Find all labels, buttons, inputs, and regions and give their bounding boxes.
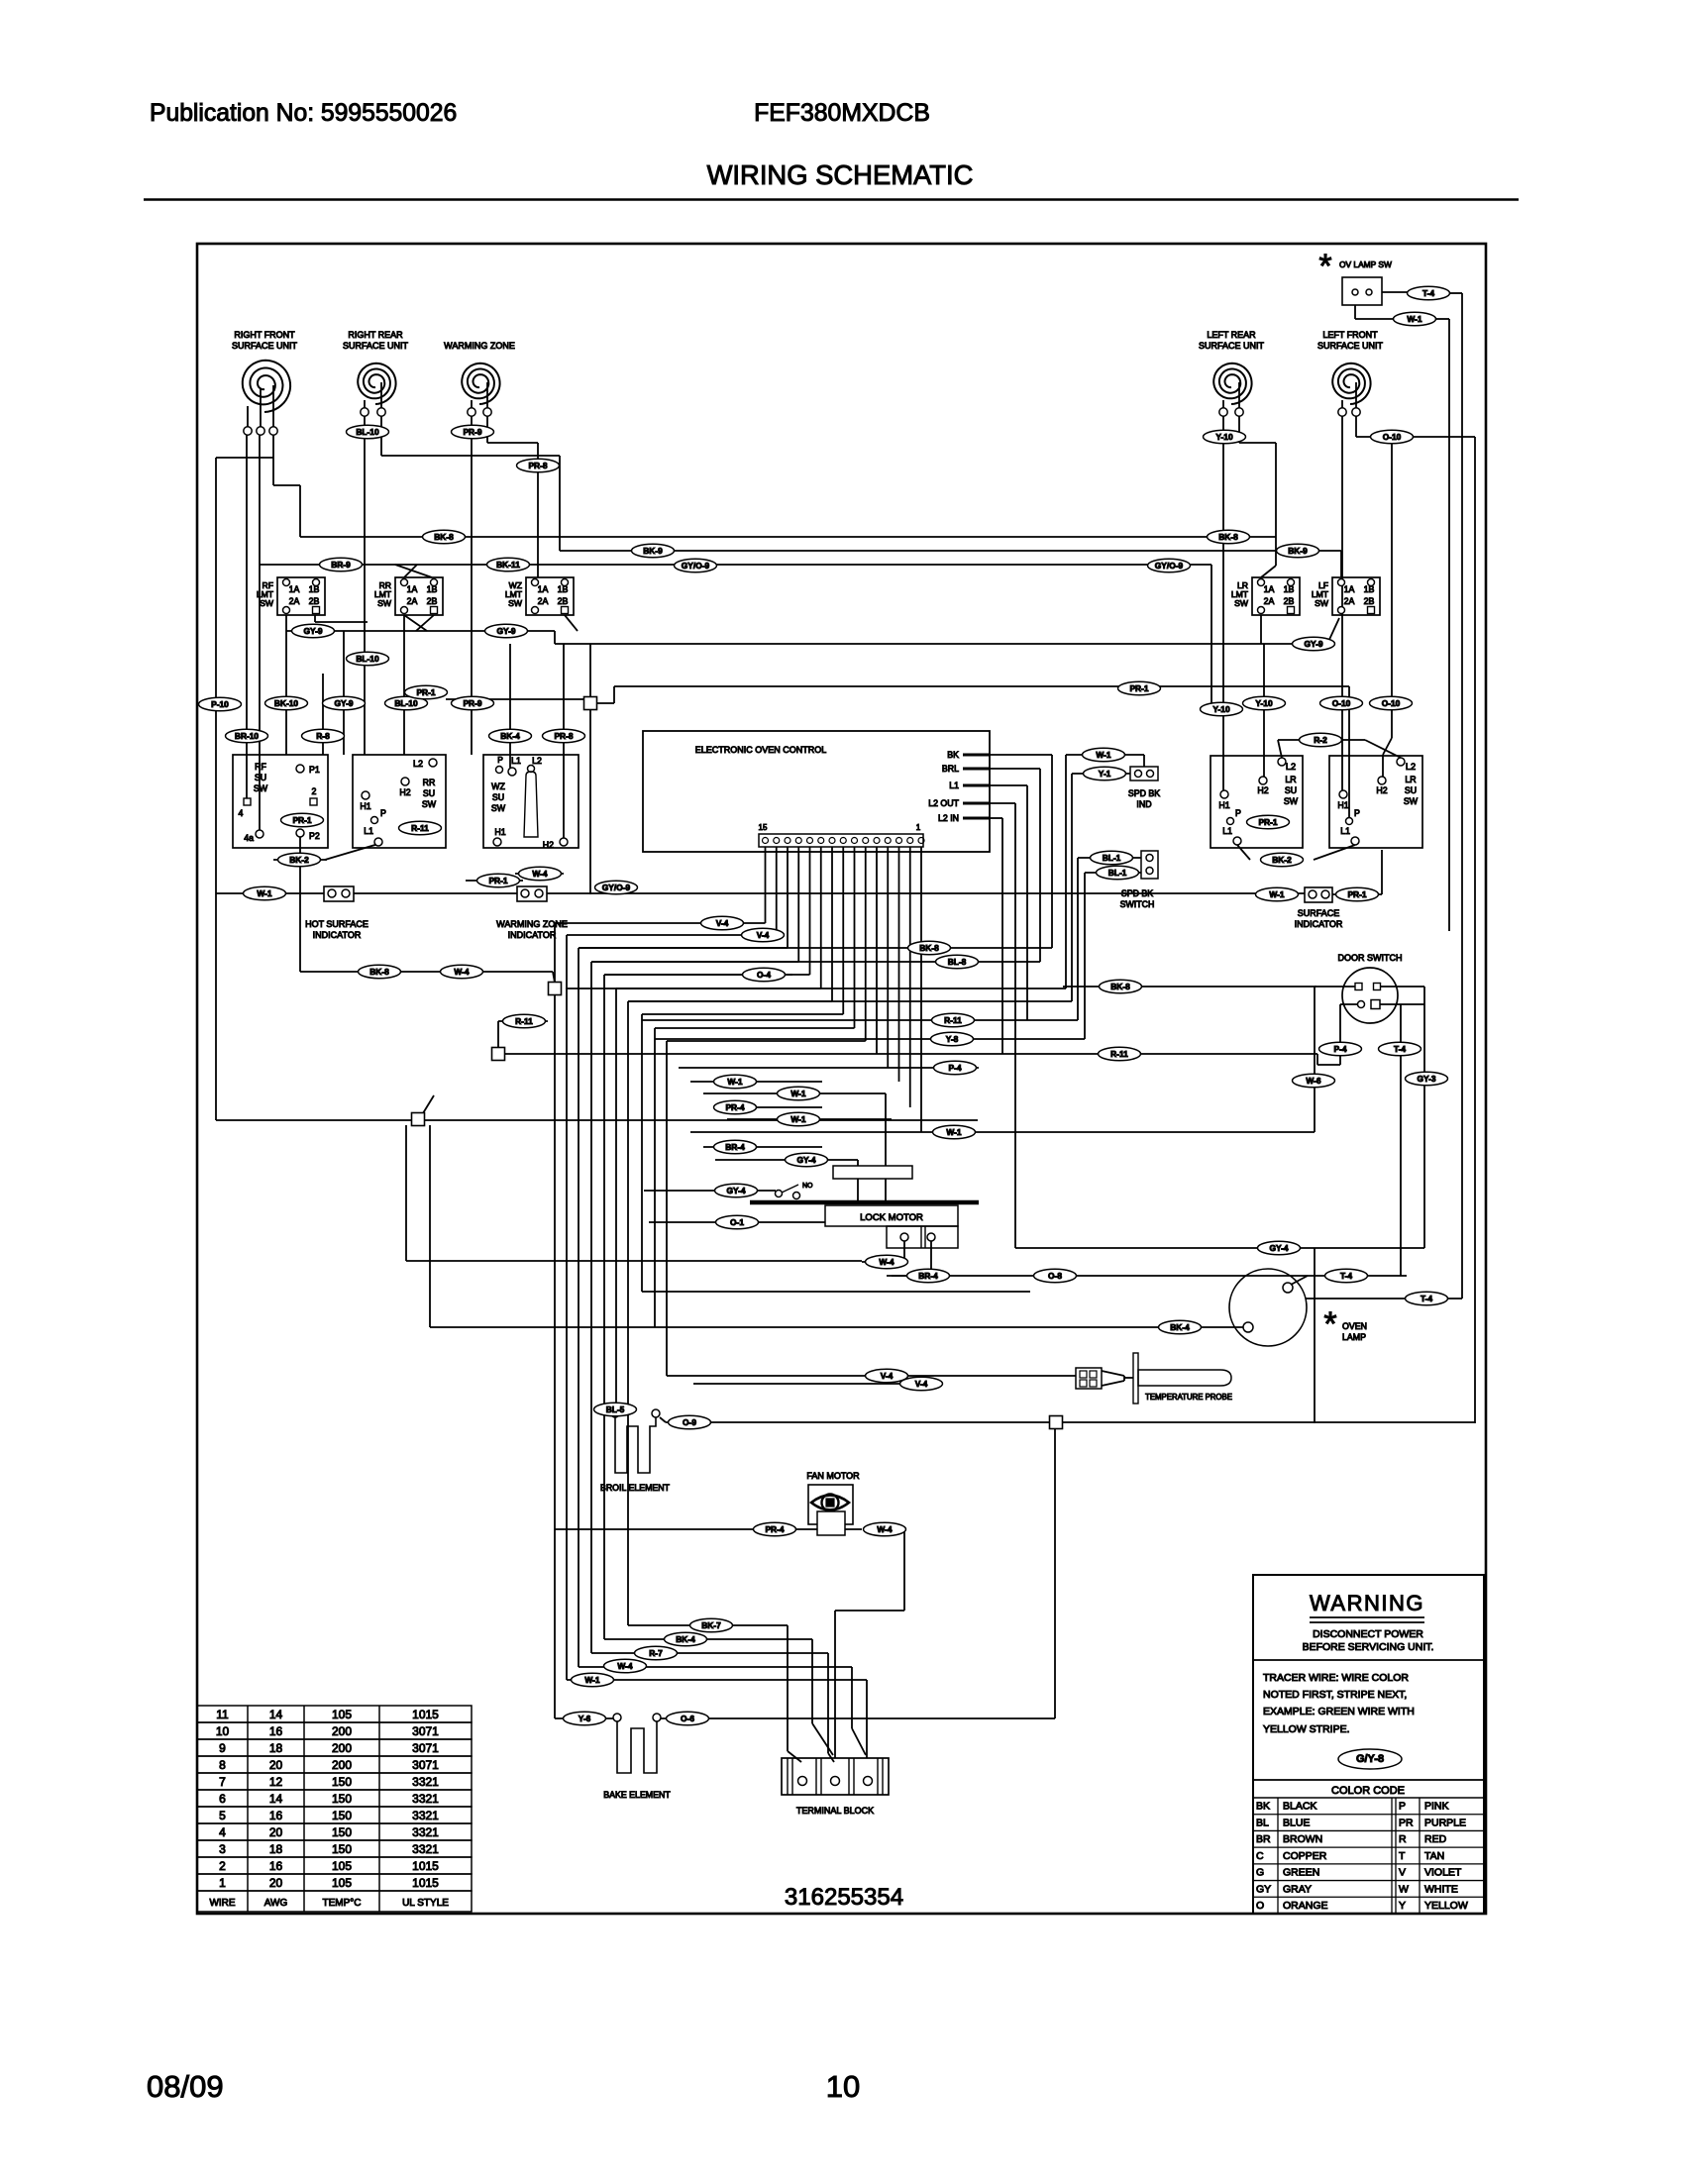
svg-text:SURFACE UNIT: SURFACE UNIT [232,341,298,351]
svg-text:WARMING ZONE: WARMING ZONE [496,919,568,929]
svg-text:BK: BK [947,750,959,760]
svg-text:T-4: T-4 [1340,1271,1352,1281]
svg-text:1015: 1015 [412,1708,439,1721]
svg-text:2A: 2A [1264,596,1275,606]
svg-text:200: 200 [332,1724,352,1738]
svg-text:BK-8: BK-8 [434,532,454,542]
svg-text:OV LAMP SW: OV LAMP SW [1339,260,1392,269]
svg-text:2B: 2B [309,596,320,606]
svg-text:SPD BK: SPD BK [1121,888,1153,898]
svg-text:GY/O-9: GY/O-9 [682,561,710,571]
svg-text:O-10: O-10 [1332,698,1351,708]
svg-text:PINK: PINK [1424,1801,1449,1813]
svg-text:08/09: 08/09 [147,2069,224,2104]
svg-text:GY-9: GY-9 [496,626,515,636]
svg-text:C: C [1256,1850,1264,1862]
svg-text:TEMPERATURE PROBE: TEMPERATURE PROBE [1145,1393,1232,1402]
svg-text:V-4: V-4 [915,1379,928,1389]
svg-text:LAMP: LAMP [1342,1332,1366,1342]
svg-text:16: 16 [269,1859,283,1873]
svg-text:L1: L1 [1222,826,1232,836]
svg-text:W-1: W-1 [1096,750,1111,760]
svg-text:R-11: R-11 [515,1016,533,1026]
svg-text:PR-8: PR-8 [554,731,573,741]
svg-text:O-8: O-8 [1048,1271,1062,1281]
svg-text:SURFACE UNIT: SURFACE UNIT [343,341,409,351]
svg-text:BK-8: BK-8 [1218,532,1238,542]
svg-text:BK-8: BK-8 [369,967,389,977]
svg-text:PR-1: PR-1 [416,687,435,697]
svg-text:R-11: R-11 [944,1015,962,1025]
svg-text:PR-1: PR-1 [1258,817,1277,827]
svg-text:Y: Y [1399,1900,1406,1912]
svg-text:O-10: O-10 [1383,432,1402,442]
svg-text:IND: IND [1136,799,1151,809]
svg-text:SW: SW [422,799,437,809]
svg-text:W-1: W-1 [257,888,272,898]
svg-text:W-1: W-1 [790,1114,806,1124]
svg-text:20: 20 [269,1825,283,1839]
svg-text:BROIL ELEMENT: BROIL ELEMENT [600,1483,671,1493]
svg-text:1015: 1015 [412,1859,439,1873]
svg-text:2: 2 [312,786,317,796]
svg-text:BK-10: BK-10 [274,698,299,708]
svg-text:BK-9: BK-9 [1288,546,1308,556]
svg-text:SU: SU [492,792,504,802]
svg-text:PR-1: PR-1 [292,815,311,825]
svg-text:SURFACE UNIT: SURFACE UNIT [1317,341,1384,351]
svg-text:R-7: R-7 [649,1648,663,1658]
svg-text:VIOLET: VIOLET [1424,1867,1462,1879]
svg-text:4: 4 [219,1825,226,1839]
svg-text:RIGHT REAR: RIGHT REAR [348,330,403,340]
svg-text:BK: BK [1256,1801,1270,1813]
svg-text:18: 18 [269,1741,283,1755]
svg-text:W-4: W-4 [454,967,470,977]
svg-text:3: 3 [219,1842,226,1856]
svg-text:20: 20 [269,1876,283,1890]
svg-text:BL-10: BL-10 [356,654,379,664]
svg-text:Y-10: Y-10 [1212,704,1230,714]
svg-text:6: 6 [219,1792,226,1806]
svg-text:PR-4: PR-4 [765,1524,784,1534]
svg-text:3321: 3321 [412,1809,439,1822]
svg-text:SW: SW [1284,796,1299,806]
svg-text:NO: NO [802,1183,813,1190]
svg-text:V-4: V-4 [716,918,729,928]
svg-text:L2: L2 [1286,762,1296,772]
svg-text:TERMINAL BLOCK: TERMINAL BLOCK [796,1806,874,1816]
svg-text:LR: LR [1285,775,1296,784]
svg-text:GY-4: GY-4 [1269,1243,1288,1253]
svg-text:R-11: R-11 [411,823,429,833]
svg-text:WARMING ZONE: WARMING ZONE [444,341,515,351]
svg-text:BK-2: BK-2 [1272,855,1292,865]
svg-text:P: P [497,755,503,765]
svg-text:H2: H2 [399,787,410,797]
svg-text:GY-3: GY-3 [1417,1074,1435,1084]
svg-text:BR-10: BR-10 [235,731,260,741]
svg-text:Publication No: 5995550026: Publication No: 5995550026 [150,100,457,127]
svg-text:BROWN: BROWN [1283,1833,1322,1845]
svg-text:R-11: R-11 [1110,1049,1128,1059]
svg-text:TRACER WIRE: WIRE COLOR: TRACER WIRE: WIRE COLOR [1263,1672,1409,1684]
svg-text:P2: P2 [309,831,320,841]
svg-text:2B: 2B [1284,596,1295,606]
svg-text:WHITE: WHITE [1424,1883,1458,1895]
svg-text:150: 150 [332,1792,352,1806]
svg-text:2B: 2B [558,596,569,606]
svg-text:R-2: R-2 [1314,735,1327,745]
svg-text:H1: H1 [1218,800,1229,810]
svg-text:H2: H2 [1257,785,1268,795]
svg-text:TEMP°C: TEMP°C [323,1898,362,1909]
svg-text:316255354: 316255354 [785,1884,903,1911]
svg-text:LEFT FRONT: LEFT FRONT [1322,330,1378,340]
svg-text:NOTED FIRST, STRIPE NEXT,: NOTED FIRST, STRIPE NEXT, [1263,1689,1407,1701]
svg-text:RIGHT FRONT: RIGHT FRONT [234,330,295,340]
svg-text:BK-11: BK-11 [496,560,520,570]
svg-text:T-4: T-4 [1394,1044,1406,1054]
svg-text:1A: 1A [1344,584,1355,594]
svg-text:BK-8: BK-8 [1110,982,1130,991]
svg-text:20: 20 [269,1758,283,1772]
svg-text:BLUE: BLUE [1283,1817,1310,1828]
svg-text:PR-8: PR-8 [528,461,547,470]
svg-text:L2: L2 [413,759,423,769]
svg-text:8: 8 [219,1758,226,1772]
svg-text:1A: 1A [289,584,300,594]
svg-text:P-4: P-4 [948,1063,961,1073]
svg-text:H2: H2 [1376,785,1387,795]
svg-text:O-4: O-4 [757,970,771,980]
svg-text:R: R [1399,1833,1407,1845]
svg-text:2A: 2A [538,596,549,606]
svg-text:2A: 2A [289,596,300,606]
svg-text:RED: RED [1424,1833,1447,1845]
svg-text:T: T [1399,1850,1406,1862]
svg-text:BL-1: BL-1 [1103,853,1121,863]
svg-text:WIRE: WIRE [209,1898,235,1909]
svg-text:SU: SU [1405,785,1417,795]
svg-text:BK-9: BK-9 [643,546,663,556]
svg-text:BL-10: BL-10 [356,427,379,437]
svg-text:18: 18 [269,1842,283,1856]
svg-text:Y-10: Y-10 [1215,432,1233,442]
svg-text:BL-5: BL-5 [606,1404,625,1414]
svg-text:9: 9 [219,1741,226,1755]
svg-text:L1: L1 [364,826,373,836]
svg-text:LEFT REAR: LEFT REAR [1207,330,1256,340]
svg-text:V: V [1399,1867,1406,1879]
svg-text:105: 105 [332,1859,352,1873]
svg-text:WIRING SCHEMATIC: WIRING SCHEMATIC [707,159,974,190]
svg-text:SU: SU [255,773,266,782]
svg-text:GY/O-9: GY/O-9 [1155,561,1184,571]
svg-text:2A: 2A [407,596,418,606]
svg-text:SW: SW [508,598,523,608]
svg-text:14: 14 [269,1708,283,1721]
svg-text:PURPLE: PURPLE [1424,1817,1466,1828]
svg-text:150: 150 [332,1825,352,1839]
svg-text:BK-8: BK-8 [919,943,939,953]
svg-text:ELECTRONIC OVEN CONTROL: ELECTRONIC OVEN CONTROL [695,745,827,755]
svg-text:Y-8: Y-8 [946,1034,959,1044]
svg-text:Y-6: Y-6 [579,1714,591,1723]
svg-text:10: 10 [216,1724,230,1738]
svg-text:EXAMPLE: GREEN WIRE WITH: EXAMPLE: GREEN WIRE WITH [1263,1706,1415,1717]
svg-text:OVEN: OVEN [1342,1321,1367,1331]
svg-text:INDICATOR: INDICATOR [508,930,557,940]
svg-text:P: P [380,808,386,818]
svg-text:BR-9: BR-9 [331,560,351,570]
svg-text:7: 7 [219,1775,226,1789]
svg-text:Y-1: Y-1 [1099,769,1111,779]
svg-text:T-4: T-4 [1421,1294,1432,1303]
svg-text:3321: 3321 [412,1842,439,1856]
svg-text:W-6: W-6 [1306,1076,1321,1086]
svg-text:3321: 3321 [412,1825,439,1839]
svg-text:YELLOW: YELLOW [1424,1900,1468,1912]
svg-text:1A: 1A [407,584,418,594]
svg-text:DISCONNECT POWER: DISCONNECT POWER [1313,1628,1423,1640]
svg-text:1015: 1015 [412,1876,439,1890]
svg-text:W: W [1399,1883,1409,1895]
svg-text:W-4: W-4 [617,1661,633,1671]
svg-text:16: 16 [269,1724,283,1738]
svg-text:105: 105 [332,1876,352,1890]
svg-text:SW: SW [1404,796,1419,806]
svg-text:GRAY: GRAY [1283,1883,1312,1895]
svg-text:BK-2: BK-2 [289,855,309,865]
svg-text:BK-4: BK-4 [1170,1322,1190,1332]
svg-text:1A: 1A [1264,584,1275,594]
svg-text:PR-4: PR-4 [725,1102,744,1112]
svg-text:P: P [1235,808,1241,818]
svg-text:P-4: P-4 [1333,1044,1346,1054]
svg-text:R-8: R-8 [316,731,330,741]
svg-text:BK-7: BK-7 [701,1620,721,1630]
svg-text:150: 150 [332,1842,352,1856]
svg-text:P: P [1354,808,1360,818]
svg-text:3071: 3071 [412,1758,439,1772]
svg-text:GY: GY [1256,1883,1271,1895]
svg-text:SW: SW [377,598,392,608]
svg-text:BL-1: BL-1 [1108,868,1127,878]
svg-text:10: 10 [826,2069,860,2104]
svg-text:15: 15 [759,823,768,832]
svg-text:TAN: TAN [1424,1850,1444,1862]
svg-text:*: * [1323,1305,1336,1343]
svg-text:GY-9: GY-9 [334,698,353,708]
svg-text:H1: H1 [360,801,370,811]
svg-text:RF: RF [255,762,266,772]
svg-text:UL STYLE: UL STYLE [402,1898,449,1909]
svg-text:PR-9: PR-9 [463,427,481,437]
svg-text:4: 4 [239,808,244,818]
svg-text:O-10: O-10 [1382,698,1401,708]
svg-text:W-1: W-1 [1407,314,1422,324]
svg-text:W-1: W-1 [946,1127,962,1137]
svg-text:GY-4: GY-4 [796,1155,815,1165]
svg-text:H1: H1 [494,827,505,837]
svg-text:BR-4: BR-4 [725,1142,745,1152]
svg-text:W-1: W-1 [727,1077,743,1087]
svg-text:3071: 3071 [412,1741,439,1755]
svg-text:P1: P1 [309,765,320,775]
svg-text:BLACK: BLACK [1283,1801,1316,1813]
svg-text:2B: 2B [427,596,438,606]
svg-text:SW: SW [1234,598,1249,608]
svg-text:105: 105 [332,1708,352,1721]
svg-text:200: 200 [332,1741,352,1755]
svg-text:ORANGE: ORANGE [1283,1900,1328,1912]
svg-text:W-1: W-1 [790,1089,806,1098]
svg-text:T-4: T-4 [1422,288,1434,298]
svg-text:3321: 3321 [412,1792,439,1806]
svg-text:O-1: O-1 [730,1217,744,1227]
svg-text:BK-4: BK-4 [676,1634,695,1644]
svg-text:PR-1: PR-1 [1129,683,1148,693]
svg-text:SW: SW [1315,598,1329,608]
svg-text:BL-10: BL-10 [394,698,418,708]
svg-text:W-1: W-1 [584,1675,600,1685]
svg-text:3321: 3321 [412,1775,439,1789]
svg-text:O: O [1256,1900,1264,1912]
svg-text:SW: SW [491,803,506,813]
svg-text:P-10: P-10 [211,699,229,709]
svg-text:GY/O-9: GY/O-9 [602,883,631,892]
svg-text:SURFACE UNIT: SURFACE UNIT [1199,341,1265,351]
svg-text:SU: SU [1285,785,1297,795]
svg-text:FAN MOTOR: FAN MOTOR [806,1471,860,1481]
svg-text:WZ: WZ [491,781,505,791]
svg-text:W-4: W-4 [879,1257,895,1267]
svg-text:V-4: V-4 [881,1371,894,1381]
svg-text:PR-1: PR-1 [488,876,507,885]
svg-text:LR: LR [1405,775,1416,784]
svg-text:SURFACE: SURFACE [1298,908,1340,918]
svg-text:L2: L2 [532,756,542,766]
svg-text:V-4: V-4 [757,930,770,940]
svg-text:2A: 2A [1344,596,1355,606]
svg-text:PR: PR [1399,1817,1414,1828]
svg-text:16: 16 [269,1809,283,1822]
svg-text:INDICATOR: INDICATOR [313,930,362,940]
svg-text:BEFORE SERVICING UNIT.: BEFORE SERVICING UNIT. [1303,1641,1434,1653]
svg-text:Y-10: Y-10 [1255,698,1273,708]
svg-text:150: 150 [332,1809,352,1822]
svg-text:FEF380MXDCB: FEF380MXDCB [754,100,930,127]
svg-text:2: 2 [219,1859,226,1873]
svg-text:GREEN: GREEN [1283,1867,1319,1879]
svg-text:W-4: W-4 [532,869,548,879]
svg-text:H2: H2 [543,840,554,850]
svg-text:1A: 1A [538,584,549,594]
svg-text:BL-8: BL-8 [948,957,967,967]
svg-text:W-1: W-1 [1269,889,1285,899]
svg-text:L1: L1 [949,780,959,790]
svg-text:G: G [1256,1867,1264,1879]
svg-text:GY-9: GY-9 [303,626,322,636]
svg-text:BL: BL [1256,1817,1269,1828]
svg-text:RR: RR [423,778,436,787]
svg-text:L2 OUT: L2 OUT [928,798,959,808]
svg-text:HOT SURFACE: HOT SURFACE [305,919,368,929]
svg-text:1: 1 [916,823,921,832]
svg-text:LOCK MOTOR: LOCK MOTOR [860,1212,923,1223]
svg-text:BRL: BRL [942,764,959,774]
svg-text:5: 5 [219,1809,226,1822]
svg-text:BR-4: BR-4 [918,1271,938,1281]
svg-text:O-9: O-9 [683,1417,696,1427]
svg-text:PR-1: PR-1 [1347,889,1366,899]
svg-text:H1: H1 [1337,800,1348,810]
svg-text:L2: L2 [1406,762,1416,772]
svg-text:SWITCH: SWITCH [1120,899,1155,909]
svg-text:GY-4: GY-4 [726,1186,745,1196]
svg-text:YELLOW STRIPE.: YELLOW STRIPE. [1263,1723,1350,1735]
svg-text:L2 IN: L2 IN [938,813,959,823]
svg-text:11: 11 [216,1708,229,1721]
svg-text:BR: BR [1256,1833,1271,1845]
svg-text:BAKE ELEMENT: BAKE ELEMENT [603,1790,671,1800]
svg-text:AWG: AWG [264,1898,288,1909]
svg-text:O-6: O-6 [681,1714,694,1723]
svg-text:SU: SU [423,788,435,798]
svg-text:4a: 4a [244,833,254,843]
svg-text:*: * [1318,248,1331,285]
svg-text:SPD BK: SPD BK [1128,788,1160,798]
svg-text:150: 150 [332,1775,352,1789]
svg-text:SW: SW [260,598,274,608]
svg-text:PR-9: PR-9 [463,698,481,708]
svg-text:W-4: W-4 [877,1524,893,1534]
svg-text:3071: 3071 [412,1724,439,1738]
svg-text:INDICATOR: INDICATOR [1295,919,1343,929]
svg-text:WARNING: WARNING [1310,1591,1424,1615]
svg-text:COLOR CODE: COLOR CODE [1331,1785,1405,1797]
svg-text:G/Y-8: G/Y-8 [1356,1753,1384,1765]
svg-text:SW: SW [254,783,268,793]
svg-text:GY-9: GY-9 [1304,639,1322,649]
svg-text:L1: L1 [1340,826,1350,836]
svg-text:L1: L1 [511,756,521,766]
svg-text:14: 14 [269,1792,283,1806]
svg-text:2B: 2B [1364,596,1375,606]
svg-text:DOOR SWITCH: DOOR SWITCH [1338,953,1403,963]
svg-text:BK-4: BK-4 [500,731,520,741]
svg-text:200: 200 [332,1758,352,1772]
svg-text:12: 12 [269,1775,283,1789]
svg-text:1: 1 [219,1876,226,1890]
svg-text:P: P [1399,1801,1406,1813]
svg-text:COPPER: COPPER [1283,1850,1327,1862]
